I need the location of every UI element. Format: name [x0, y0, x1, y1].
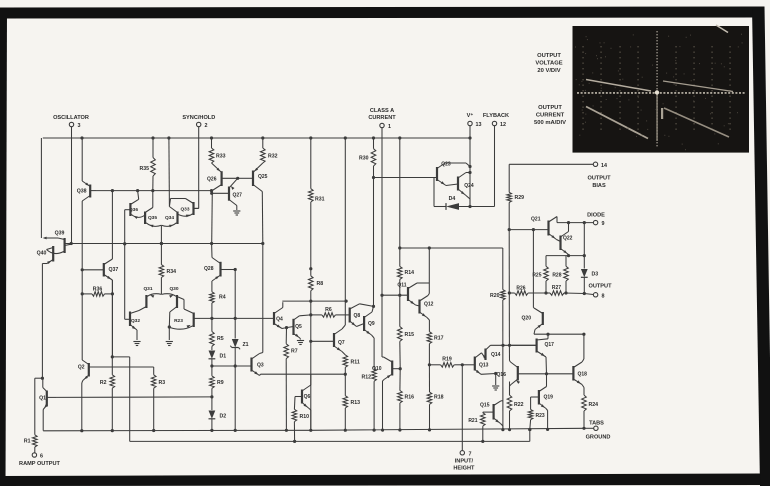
svg-text:D3: D3: [592, 272, 599, 278]
svg-text:Q12: Q12: [424, 302, 434, 308]
svg-text:R15: R15: [405, 332, 415, 338]
transistor Q21: [531, 217, 557, 240]
svg-text:R14: R14: [405, 270, 415, 276]
wire Q20 emitter row y=334.2: [534, 333, 586, 336]
svg-text:14: 14: [601, 163, 607, 169]
pin 8 OUTPUT: [589, 284, 613, 300]
transistor Q30: [162, 286, 184, 327]
transistor Q29 labeled R23: [169, 309, 200, 329]
svg-text:Q18: Q18: [578, 372, 588, 378]
transistor Q5: [287, 315, 311, 340]
transistor Q15: [480, 401, 503, 430]
svg-text:R16: R16: [405, 395, 415, 401]
transistor Q32: [125, 244, 141, 340]
svg-text:Q9: Q9: [368, 321, 375, 327]
wire R1 branch: [35, 378, 43, 435]
svg-text:Q8: Q8: [354, 313, 361, 319]
svg-text:Q28: Q28: [204, 266, 214, 272]
wire y=318.4 row: [200, 317, 274, 319]
svg-text:R28: R28: [552, 273, 561, 279]
resistor R11: [343, 355, 360, 374]
transistor Q40: [37, 246, 54, 264]
wire bias row y=243.5: [64, 242, 265, 246]
wire pin1 down: [380, 128, 383, 357]
svg-text:FLYBACK: FLYBACK: [483, 113, 509, 119]
wire Q4 collector row y=301.1: [282, 300, 347, 303]
transistor Q1: [39, 378, 56, 430]
svg-text:D4: D4: [449, 196, 456, 202]
svg-text:9: 9: [602, 221, 605, 227]
svg-text:R10: R10: [300, 414, 310, 420]
svg-text:R23: R23: [174, 318, 183, 324]
wire TABS lead: [584, 427, 594, 429]
wire second bottom line: [111, 355, 532, 443]
svg-text:CLASS A: CLASS A: [370, 108, 394, 114]
wire V+ down: [468, 126, 471, 208]
ground under Q32: [133, 342, 140, 346]
svg-text:VOLTAGE: VOLTAGE: [535, 61, 562, 67]
resistor R10: [292, 397, 309, 442]
resistor R1: [24, 435, 37, 447]
svg-text:R4: R4: [219, 295, 226, 301]
zener Z1: [230, 318, 248, 430]
wire Q22 emitter row y=255.6: [546, 254, 586, 257]
svg-text:R32: R32: [268, 154, 278, 160]
wire Q11 base row: [382, 294, 408, 296]
wire rail to node row: [398, 138, 401, 250]
resistor R22: [507, 395, 523, 430]
svg-text:Q10: Q10: [372, 366, 382, 372]
ground under Q13: [492, 374, 499, 391]
svg-text:OUTPUT: OUTPUT: [588, 176, 612, 182]
svg-text:Q14: Q14: [491, 352, 501, 358]
svg-text:R9: R9: [217, 380, 224, 386]
transistor Q9: [357, 306, 375, 338]
wire Q3 emitter row y=374.2: [261, 373, 347, 376]
resistor R27: [546, 285, 584, 295]
wire Q25 emitter node down to Q3 collector: [262, 244, 264, 353]
svg-text:Q32: Q32: [131, 318, 140, 324]
resistor R21: [468, 412, 485, 443]
wire quad common tail: [160, 225, 163, 245]
ground under Q30: [166, 342, 173, 346]
svg-text:R17: R17: [434, 336, 444, 342]
transistor Q28: [204, 244, 235, 292]
pin 7 INPUT/HEIGHT: [453, 451, 475, 472]
svg-text:Q26: Q26: [207, 177, 217, 183]
resistor R19: [428, 357, 464, 368]
svg-text:Z1: Z1: [243, 342, 249, 348]
svg-text:INPUT/: INPUT/: [455, 459, 474, 465]
pin 14 OUTPUT BIAS: [588, 162, 612, 189]
bottom ground rail: [43, 428, 584, 433]
transistor Q39: [43, 231, 72, 254]
resistor R20: [490, 290, 505, 430]
svg-text:Q34: Q34: [165, 215, 174, 221]
svg-text:V⁺: V⁺: [467, 112, 474, 119]
transistor Q34: [162, 138, 178, 227]
wire R22 column: [509, 382, 511, 396]
transistor Q26: [207, 163, 238, 244]
wire Q23 base row y=177.5: [374, 177, 438, 179]
transistor Q27: [212, 177, 242, 210]
svg-text:Q3: Q3: [257, 363, 264, 369]
wire left rail down: [40, 138, 42, 238]
svg-text:Q39: Q39: [55, 231, 65, 237]
svg-text:Q2: Q2: [78, 365, 85, 371]
svg-text:R11: R11: [351, 360, 360, 366]
svg-text:R23: R23: [536, 413, 545, 419]
svg-text:1: 1: [388, 124, 391, 130]
wire Q28-base node down: [234, 268, 237, 320]
svg-text:R22: R22: [514, 402, 524, 408]
diode D4: [434, 196, 495, 210]
transistor Q35: [145, 191, 161, 228]
svg-text:DIODE: DIODE: [587, 213, 605, 219]
resistor R15: [398, 295, 415, 369]
resistor R6: [311, 307, 350, 317]
svg-text:R29: R29: [515, 195, 525, 201]
resistor R31: [309, 138, 325, 269]
wire node y=318.4: [210, 317, 213, 320]
wire x=509.5 down: [508, 230, 511, 361]
diode D1: [209, 351, 227, 360]
svg-text:6: 6: [40, 454, 43, 460]
wire Q12 collector segment: [428, 283, 430, 294]
transistor Q24: [446, 173, 474, 207]
svg-text:SYNC/HOLD: SYNC/HOLD: [182, 115, 215, 121]
svg-text:Q5: Q5: [295, 324, 302, 330]
resistor R34: [159, 244, 176, 295]
svg-text:Q33: Q33: [180, 207, 189, 213]
wire Q20 base riser: [532, 230, 534, 308]
svg-text:Q24: Q24: [464, 183, 474, 189]
resistor R16: [398, 369, 415, 431]
transistor Q2: [78, 359, 112, 431]
transistor Q17: [509, 334, 554, 374]
svg-text:D2: D2: [220, 414, 227, 420]
svg-text:Q1: Q1: [39, 396, 46, 402]
resistor R14: [398, 248, 415, 297]
transistor Q3: [212, 353, 264, 376]
pin 1 CLASS A CURRENT: [368, 108, 396, 130]
wire pin14 corner down: [508, 164, 510, 192]
resistor R26: [509, 286, 546, 296]
svg-text:R8: R8: [317, 281, 324, 287]
resistor R30: [359, 138, 376, 179]
svg-text:GROUND: GROUND: [586, 435, 611, 441]
transistor Q33: [169, 199, 198, 218]
resistor R32: [261, 138, 278, 163]
svg-text:Q20: Q20: [522, 316, 532, 322]
transistor Q36: [125, 191, 145, 219]
transistor Q25: [238, 163, 268, 244]
svg-text:Q17: Q17: [545, 342, 555, 348]
svg-text:Q4: Q4: [276, 317, 283, 323]
wire rail to Q7 collector x=345.3: [344, 138, 346, 301]
wire pin14 lead: [509, 163, 593, 165]
svg-text:R21: R21: [468, 418, 477, 424]
svg-text:R13: R13: [351, 400, 361, 406]
svg-text:12: 12: [500, 122, 506, 128]
wire Q30 collector to ground: [168, 325, 171, 340]
resistor R4: [210, 292, 226, 319]
pin 13 V+: [467, 112, 482, 128]
resistor R12: [361, 338, 376, 430]
svg-text:Q22: Q22: [563, 236, 573, 242]
svg-text:OUTPUT: OUTPUT: [538, 105, 562, 111]
pin 6 RAMP OUTPUT: [19, 447, 61, 467]
svg-text:CURRENT: CURRENT: [536, 113, 565, 119]
svg-text:Q35: Q35: [148, 215, 157, 221]
wire FLYBACK down: [494, 126, 496, 207]
svg-text:Q27: Q27: [233, 193, 243, 199]
svg-text:Q25: Q25: [258, 174, 268, 180]
resistor R3: [151, 375, 165, 431]
transistor Q18: [573, 334, 587, 395]
wire Q14 collector row y=345.3: [491, 344, 537, 347]
resistor R5: [210, 318, 224, 350]
svg-text:2: 2: [205, 123, 208, 129]
svg-text:R1: R1: [24, 439, 31, 445]
wire left vertical to Q1: [41, 264, 44, 380]
transistor Q38: [77, 138, 96, 270]
transistor Q7: [309, 301, 345, 355]
resistor R23 lower: [528, 397, 545, 430]
transistor Q13: [462, 353, 497, 375]
wire node row corner down x=503: [502, 248, 504, 290]
resistor R9: [210, 376, 224, 399]
transistor Q20: [522, 308, 543, 335]
resistor R36: [81, 270, 114, 296]
svg-text:Q21: Q21: [531, 217, 541, 223]
svg-text:R20: R20: [490, 293, 500, 299]
wire Q21 base row y=229.6: [509, 228, 548, 231]
transistor Q8: [350, 304, 374, 327]
transistor Q31: [139, 286, 161, 311]
svg-text:Q31: Q31: [143, 286, 152, 292]
wire diode pin row y=222.6: [557, 221, 593, 224]
svg-text:D1: D1: [220, 354, 227, 360]
wire D1 to R9: [210, 359, 213, 376]
scope label output voltage: [535, 53, 562, 74]
transistor Q10: [372, 357, 402, 430]
svg-text:Q11: Q11: [397, 283, 406, 289]
svg-text:HEIGHT: HEIGHT: [453, 466, 475, 472]
transistor Q19: [531, 374, 554, 430]
svg-text:R3: R3: [159, 380, 166, 386]
svg-text:R35: R35: [139, 166, 149, 172]
svg-text:Q16: Q16: [497, 372, 507, 378]
wire R30 node down: [372, 178, 375, 309]
svg-text:CURRENT: CURRENT: [368, 115, 396, 121]
svg-text:OUTPUT: OUTPUT: [537, 53, 561, 59]
pin 12 FLYBACK: [483, 113, 509, 128]
transistor Q4: [274, 302, 288, 329]
svg-text:13: 13: [476, 122, 482, 128]
wire to pin 8: [584, 294, 593, 295]
pin 2 SYNC/HOLD: [182, 115, 215, 129]
svg-text:R2: R2: [100, 380, 107, 386]
svg-text:7: 7: [469, 452, 472, 458]
transistor Q22: [557, 223, 573, 256]
wire D4 up to Q23 base: [433, 178, 435, 207]
svg-text:Q15: Q15: [480, 403, 490, 409]
wire Q1 base row: [56, 396, 212, 399]
svg-text:Q30: Q30: [169, 286, 178, 292]
resistor R24: [582, 395, 598, 430]
wire Q2 base row to R3: [112, 367, 153, 375]
resistor R2: [100, 357, 115, 431]
svg-text:R7: R7: [291, 349, 298, 355]
svg-text:Q7: Q7: [338, 340, 345, 346]
svg-text:R30: R30: [359, 156, 369, 162]
svg-text:R34: R34: [167, 269, 177, 275]
ground under Q5: [297, 341, 304, 345]
wire R8 column to bottom rail: [309, 301, 312, 430]
transistor Q12: [416, 294, 434, 321]
resistor R18: [427, 365, 443, 431]
transistor Q6: [295, 374, 311, 430]
transistor Q23: [437, 162, 470, 186]
wire pin3 down: [71, 127, 73, 244]
pin TABS GROUND: [586, 421, 611, 441]
diode D2: [209, 397, 227, 430]
wire node row y=248: [400, 246, 503, 249]
resistor R25: [532, 256, 548, 295]
diode D3: [581, 223, 598, 296]
wire Q36 base down: [123, 210, 126, 246]
oscilloscope photo inset: [573, 25, 750, 153]
resistor R35: [139, 138, 155, 191]
svg-text:8: 8: [602, 293, 605, 299]
wire base row y=190.6: [96, 189, 213, 192]
top supply rail: [43, 136, 472, 139]
svg-text:R18: R18: [434, 395, 444, 401]
svg-text:R24: R24: [589, 402, 599, 408]
wire Q16-Q18 base row y=373.8: [518, 372, 574, 375]
svg-text:3: 3: [78, 123, 81, 129]
svg-text:R5: R5: [217, 336, 224, 342]
wire Q38-collector column down: [81, 294, 83, 359]
wire Q37 emitter column: [111, 280, 113, 357]
resistor R7: [284, 328, 298, 431]
svg-text:TABS: TABS: [589, 421, 604, 427]
resistor R29: [507, 192, 524, 231]
svg-text:R12: R12: [361, 375, 371, 381]
pin 3 OSCILLATOR: [53, 115, 89, 129]
transistor Q16: [497, 361, 520, 396]
svg-text:500 mA/DIV: 500 mA/DIV: [534, 120, 566, 126]
resistor R28: [552, 256, 568, 295]
scope label output current: [534, 105, 566, 126]
svg-text:Q13: Q13: [479, 363, 489, 369]
wire pin7 riser: [461, 365, 463, 451]
ground under Q27: [233, 211, 240, 215]
svg-text:RAMP OUTPUT: RAMP OUTPUT: [19, 461, 61, 467]
svg-text:Q37: Q37: [109, 267, 119, 273]
svg-text:R19: R19: [442, 357, 452, 363]
svg-text:BIAS: BIAS: [592, 183, 606, 189]
transistor Q14: [482, 345, 501, 360]
resistor R13: [343, 374, 360, 430]
svg-text:Q6: Q6: [304, 394, 311, 400]
resistor R8: [309, 267, 324, 303]
svg-text:20 V/DIV: 20 V/DIV: [537, 68, 560, 74]
svg-text:Q38: Q38: [77, 189, 87, 195]
wire pin2 down to Q33 base: [194, 127, 199, 209]
svg-text:OSCILLATOR: OSCILLATOR: [53, 115, 89, 121]
svg-text:Q19: Q19: [544, 395, 554, 401]
svg-text:Q40: Q40: [37, 251, 47, 257]
svg-text:R31: R31: [315, 197, 325, 203]
resistor R17: [427, 320, 444, 365]
wire Q11 collector up: [428, 248, 430, 283]
transistor Q37: [81, 191, 119, 357]
transistor Q11: [397, 283, 429, 306]
pin 9 DIODE: [587, 213, 605, 228]
resistor R33: [209, 138, 225, 163]
svg-text:R33: R33: [216, 154, 226, 160]
svg-text:OUTPUT: OUTPUT: [589, 284, 613, 290]
